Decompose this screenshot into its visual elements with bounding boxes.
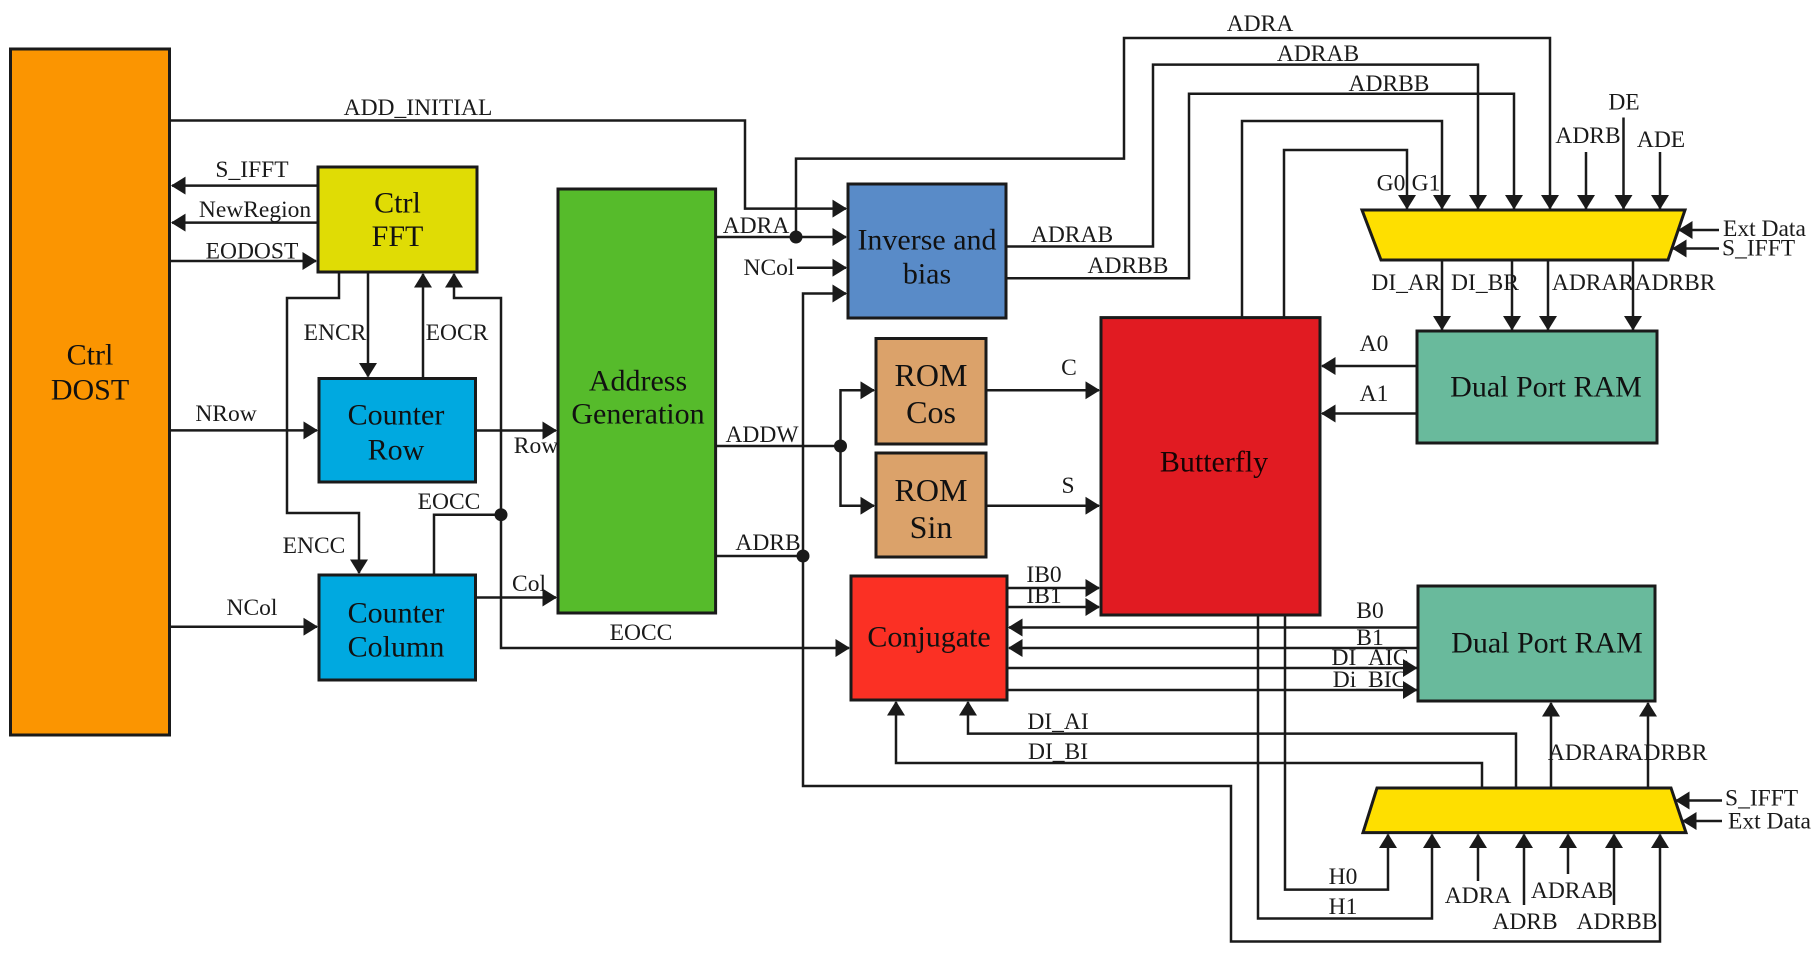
wire EOCC from Counter Column to junction: [434, 515, 501, 575]
wire B1: [1009, 647, 1417, 650]
wire NRow: [170, 429, 318, 432]
block Ctrl DOST: [11, 49, 170, 735]
svg-text:FFT: FFT: [372, 220, 424, 253]
wire IB1: [1007, 606, 1099, 609]
svg-text:B0: B0: [1356, 598, 1383, 624]
wire DI_AIC: [1007, 667, 1417, 670]
svg-text:Generation: Generation: [571, 398, 704, 431]
svg-text:ADRAR: ADRAR: [1552, 270, 1635, 296]
wire Ext Data bottom: [1683, 820, 1722, 823]
svg-text:Cos: Cos: [906, 394, 956, 430]
wire S: [986, 504, 1099, 507]
wire Col: [476, 596, 557, 599]
svg-text:ADRA: ADRA: [1445, 883, 1512, 909]
wire A0: [1322, 365, 1417, 368]
wire ADRAB bottom stub: [1567, 835, 1570, 875]
wire S_IFFT to Ctrl DOST: [172, 184, 318, 187]
svg-text:EOCC: EOCC: [610, 620, 673, 646]
svg-text:ADRAB: ADRAB: [1031, 222, 1113, 248]
wire ADRBR top: [1632, 260, 1635, 330]
svg-text:bias: bias: [903, 258, 951, 291]
wire ADRA to top mux: [796, 38, 1550, 237]
wire ADRB bottom stub: [1523, 835, 1526, 906]
svg-text:S_IFFT: S_IFFT: [1722, 236, 1795, 262]
block ROM Cos: [876, 339, 986, 445]
svg-text:ADRBB: ADRBB: [1577, 909, 1658, 935]
block Butterfly: [1101, 318, 1320, 615]
block Conjugate: [851, 576, 1007, 700]
svg-text:DI_BR: DI_BR: [1451, 270, 1519, 296]
wire ADRBR bottom: [1647, 703, 1650, 788]
wire S_IFFT bottom: [1676, 799, 1722, 802]
svg-text:Inverse and: Inverse and: [857, 224, 996, 257]
svg-text:ADRAR: ADRAR: [1548, 740, 1631, 766]
svg-text:ADRBR: ADRBR: [1627, 740, 1708, 766]
svg-text:Dual Port RAM: Dual Port RAM: [1451, 627, 1643, 660]
junction node ADRA: [790, 231, 803, 244]
svg-text:H0: H0: [1329, 864, 1358, 890]
svg-text:EOCC: EOCC: [418, 489, 481, 515]
wire ADRBB: [1006, 94, 1514, 279]
svg-text:NRow: NRow: [195, 401, 256, 427]
svg-text:Counter: Counter: [348, 399, 445, 432]
svg-text:ADRBB: ADRBB: [1088, 253, 1169, 279]
wire ADDW to ROM Cos: [841, 390, 875, 446]
wire ADRA green to Inverse: [716, 236, 846, 239]
wire ADRAR top: [1547, 260, 1550, 330]
wire DI_BI: [896, 702, 1482, 788]
junction node ADDW: [834, 440, 847, 453]
svg-text:EOCR: EOCR: [426, 320, 489, 346]
wire G0: [1284, 150, 1407, 318]
svg-text:Ext Data: Ext Data: [1728, 809, 1811, 835]
wire H1: [1258, 615, 1432, 919]
mux top (trapezoid): [1362, 210, 1685, 260]
svg-text:Di_BIC: Di_BIC: [1333, 667, 1407, 693]
svg-text:C: C: [1061, 355, 1077, 381]
wire ADE stub: [1659, 152, 1662, 209]
wire ADRBB bottom stub: [1613, 835, 1616, 906]
wire NCol: [170, 625, 318, 628]
wire H0: [1285, 615, 1388, 890]
svg-text:Col: Col: [512, 571, 546, 597]
svg-text:DI_AI: DI_AI: [1027, 709, 1088, 735]
wire EOCR: [422, 274, 425, 379]
wire A1: [1322, 412, 1417, 415]
svg-text:Ctrl: Ctrl: [67, 339, 114, 372]
block Dual Port RAM top: [1417, 331, 1657, 443]
svg-text:DE: DE: [1608, 90, 1639, 116]
svg-text:S: S: [1061, 473, 1074, 499]
wire ENCC: [287, 272, 359, 573]
svg-text:ADRAB: ADRAB: [1277, 41, 1359, 67]
wire B0: [1009, 626, 1417, 629]
svg-text:H1: H1: [1329, 894, 1358, 920]
svg-text:ROM: ROM: [895, 472, 968, 508]
svg-text:ADRBR: ADRBR: [1635, 270, 1716, 296]
wire ADRA bottom stub: [1477, 835, 1480, 882]
wire ADRB to bottom mux: [803, 556, 1660, 942]
svg-text:ADRB: ADRB: [1492, 909, 1557, 935]
svg-text:ENCC: ENCC: [283, 533, 346, 559]
wire EODOST: [170, 260, 317, 263]
svg-text:Conjugate: Conjugate: [867, 621, 990, 654]
svg-text:Address: Address: [589, 365, 687, 398]
wire ADRB top stub: [1585, 152, 1588, 209]
svg-text:A0: A0: [1360, 331, 1389, 357]
wire ADDW: [716, 445, 841, 448]
wire EOCC junction to Conjugate: [501, 515, 849, 648]
svg-text:ADRA: ADRA: [1227, 11, 1294, 37]
block Counter Row: [319, 379, 476, 483]
svg-text:Ctrl: Ctrl: [374, 187, 421, 220]
svg-text:ADRA: ADRA: [723, 213, 790, 239]
svg-text:G0: G0: [1377, 171, 1406, 197]
wire NCol stub to Inverse: [797, 266, 846, 269]
wire DI_BR: [1511, 260, 1514, 330]
svg-text:ADD_INITIAL: ADD_INITIAL: [344, 95, 493, 121]
svg-text:ROM: ROM: [895, 357, 968, 393]
svg-text:Sin: Sin: [910, 509, 953, 545]
block ROM Sin: [876, 453, 986, 557]
wire ENCR: [367, 272, 370, 377]
svg-text:ENCR: ENCR: [304, 320, 367, 346]
junction node ADRB: [797, 550, 810, 563]
svg-text:Butterfly: Butterfly: [1160, 446, 1268, 479]
svg-text:ADRB: ADRB: [735, 530, 800, 556]
wire ADD_INITIAL: [170, 121, 847, 209]
mux bottom (trapezoid): [1363, 788, 1686, 833]
svg-text:S_IFFT: S_IFFT: [215, 157, 288, 183]
wire EOCC junction to Ctrl FFT: [454, 274, 501, 515]
block Counter Column: [319, 575, 476, 680]
wire DE stub: [1622, 118, 1625, 209]
block Address Generation: [558, 189, 716, 613]
block Dual Port RAM bottom: [1418, 586, 1655, 701]
svg-text:Row: Row: [514, 433, 558, 459]
wire Row: [476, 429, 557, 432]
block Inverse and bias: [848, 184, 1006, 318]
wire ADDW to ROM Sin: [841, 446, 875, 506]
svg-text:DI_AR: DI_AR: [1371, 270, 1441, 296]
svg-text:NCol: NCol: [227, 595, 278, 621]
wire ADRB green to Inverse: [716, 294, 846, 557]
wire NewRegion: [172, 221, 318, 224]
svg-text:ADRAB: ADRAB: [1531, 878, 1613, 904]
svg-text:Row: Row: [368, 434, 425, 467]
wire DI_AR: [1441, 260, 1444, 330]
wire C: [986, 389, 1099, 392]
svg-text:EODOST: EODOST: [206, 239, 299, 265]
svg-text:ADRB: ADRB: [1555, 123, 1620, 149]
wire Ext Data top: [1679, 229, 1719, 232]
wire G1: [1242, 121, 1442, 318]
svg-text:NewRegion: NewRegion: [199, 197, 312, 223]
junction node EOCC: [495, 508, 508, 521]
wire S_IFFT top: [1673, 247, 1719, 250]
svg-text:A1: A1: [1360, 381, 1389, 407]
svg-text:ADRBB: ADRBB: [1349, 71, 1430, 97]
wire IB0: [1007, 587, 1099, 590]
svg-text:DOST: DOST: [51, 374, 129, 407]
svg-text:ADE: ADE: [1637, 127, 1685, 153]
wire DI_AI: [968, 702, 1516, 788]
svg-text:IB1: IB1: [1026, 583, 1061, 609]
svg-text:NCol: NCol: [744, 255, 795, 281]
svg-text:ADDW: ADDW: [725, 422, 799, 448]
block Ctrl FFT: [318, 167, 477, 272]
wire ADRAR bottom: [1550, 703, 1553, 788]
svg-text:Counter: Counter: [348, 597, 445, 630]
svg-text:Column: Column: [348, 631, 445, 664]
wire ADRAB: [1006, 65, 1478, 247]
svg-text:DI_BI: DI_BI: [1028, 739, 1088, 765]
svg-text:Dual Port RAM: Dual Port RAM: [1450, 371, 1642, 404]
svg-text:G1: G1: [1412, 171, 1441, 197]
wire DI_BIC: [1007, 689, 1417, 692]
